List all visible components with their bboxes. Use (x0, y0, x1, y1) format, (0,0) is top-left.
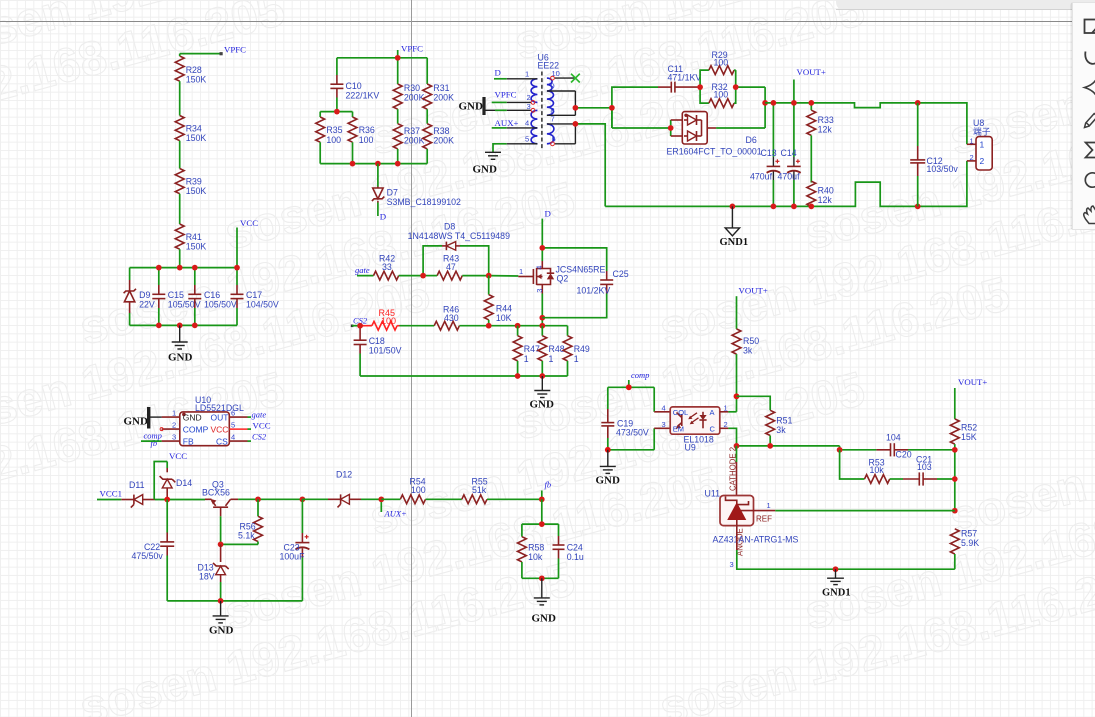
svg-text:GND: GND (459, 101, 484, 113)
svg-text:R36: R36 (359, 125, 375, 135)
net label VCC1 (97, 489, 122, 500)
svg-text:100: 100 (411, 485, 426, 495)
wire opto pin1 node (728, 393, 739, 411)
net label comp (C19) (629, 370, 650, 387)
svg-text:1: 1 (980, 140, 985, 150)
svg-text:100uF: 100uF (280, 552, 306, 562)
capacitor C22 (132, 500, 175, 601)
junction dots right column (952, 447, 958, 514)
right toolbar panel (1071, 2, 1095, 230)
svg-text:15K: 15K (961, 432, 977, 442)
svg-text:6: 6 (231, 408, 235, 417)
zener diode D9 (124, 268, 155, 326)
svg-text:D: D (495, 68, 501, 78)
svg-text:3: 3 (172, 432, 176, 441)
svg-text:0.1u: 0.1u (567, 552, 584, 562)
svg-text:R49: R49 (574, 344, 590, 354)
ground GND (C19) (596, 450, 621, 487)
svg-text:GND: GND (183, 412, 202, 422)
svg-text:105/50V: 105/50V (168, 300, 201, 310)
resistor R46 (434, 305, 489, 331)
svg-text:C17: C17 (246, 290, 262, 300)
wire (179, 81, 181, 115)
svg-text:104/50V: 104/50V (246, 300, 279, 310)
optocoupler U9 EL1018 (654, 404, 728, 453)
resistor R54 (381, 477, 462, 504)
svg-text:104: 104 (886, 433, 901, 443)
net label VCC (D14) (154, 451, 187, 500)
resistor R57 (950, 529, 979, 570)
wire R35/R36 top rail (320, 111, 352, 113)
svg-text:1: 1 (574, 354, 579, 364)
wire D6 feed (612, 120, 674, 136)
resistor R37 (393, 109, 424, 163)
wire VPFC rail top (C10 block) (337, 50, 427, 58)
svg-text:103: 103 (917, 462, 932, 472)
svg-text:VCC: VCC (253, 421, 271, 431)
capacitor C20 (876, 433, 954, 460)
svg-text:R41: R41 (186, 232, 202, 242)
wire opto pin2 to cathode rail (728, 428, 839, 448)
svg-text:U9: U9 (685, 443, 696, 453)
svg-text:200K: 200K (404, 93, 425, 103)
svg-text:R37: R37 (404, 126, 420, 136)
net label VOUT+ (R52) (955, 377, 988, 419)
wire C19 bottom rail (605, 387, 654, 452)
net label D (transformer pin1) (494, 68, 507, 79)
pin 5 (507, 143, 538, 145)
svg-text:475/50v: 475/50v (132, 551, 164, 561)
transistor Q2 JCS4N65RE (518, 261, 605, 294)
svg-text:GND: GND (209, 625, 234, 637)
svg-text:C18: C18 (369, 336, 385, 346)
IC U10 LD5521DGL (160, 395, 247, 446)
svg-text:D9: D9 (139, 290, 150, 300)
net label AUX+ (D12) (378, 496, 406, 518)
svg-text:1: 1 (724, 404, 728, 413)
svg-text:R30: R30 (404, 83, 420, 93)
svg-text:473/50V: 473/50V (616, 428, 649, 438)
pin 7 (547, 123, 576, 125)
svg-text:GND: GND (532, 613, 557, 625)
svg-text:C: C (710, 425, 716, 434)
capacitor C14 (778, 103, 801, 206)
svg-text:GND: GND (530, 399, 555, 411)
svg-text:100: 100 (326, 135, 341, 145)
resistor R45 (highlighted) (372, 308, 400, 330)
svg-text:GND1: GND1 (720, 237, 749, 248)
svg-text:FB: FB (183, 436, 194, 446)
wire R53 branch (840, 450, 865, 479)
svg-text:12k: 12k (818, 195, 833, 205)
ground GND1 (TL431) (822, 569, 851, 598)
svg-text:D: D (380, 212, 386, 222)
svg-text:1: 1 (970, 137, 974, 146)
svg-text:C10: C10 (346, 81, 362, 91)
svg-text:VCC1: VCC1 (100, 489, 123, 499)
svg-text:gate: gate (252, 410, 267, 420)
svg-text:fb: fb (545, 480, 552, 490)
svg-text:150K: 150K (186, 74, 207, 84)
svg-text:200K: 200K (404, 136, 425, 146)
capacitor C23 (280, 499, 310, 601)
no-connect X at pin 10 (571, 74, 580, 83)
svg-text:10k: 10k (528, 552, 543, 562)
svg-text:103/50v: 103/50v (927, 164, 959, 174)
shunt regulator U11 AZ431AN (705, 446, 799, 569)
capacitor C15 (152, 268, 200, 326)
wire bottom rail C10 block (320, 163, 427, 165)
wire cathode jog (837, 446, 877, 453)
pin 8 (547, 114, 576, 116)
net label VOUT+ (output) (794, 67, 826, 103)
pin 3 (507, 109, 531, 111)
toolbar icon curve (1085, 52, 1095, 64)
net label D (Q2 drain) (542, 209, 551, 262)
capacitor C17 (231, 268, 279, 326)
junction dots cap bank (156, 265, 240, 329)
svg-text:R39: R39 (186, 177, 202, 187)
zener diode D13 (198, 544, 229, 601)
svg-text:ER1604FCT_TO_00001: ER1604FCT_TO_00001 (667, 147, 762, 157)
diode D8 1N4148WS (408, 222, 510, 276)
svg-text:Q2: Q2 (557, 274, 569, 284)
junction dots output rails (730, 100, 921, 209)
resistor R33 (807, 103, 834, 183)
wire (179, 249, 181, 267)
net label CS2 (U10 pin4) (248, 432, 267, 442)
toolbar icon star (1085, 78, 1095, 98)
toolbar icon rect/image (1085, 20, 1095, 34)
svg-text:BCX56: BCX56 (202, 488, 230, 498)
svg-text:9: 9 (551, 82, 555, 91)
svg-text:R52: R52 (961, 423, 977, 433)
svg-text:100: 100 (381, 316, 396, 326)
svg-text:10K: 10K (496, 313, 512, 323)
svg-text:10k: 10k (870, 465, 885, 475)
svg-text:3: 3 (527, 102, 531, 111)
toolbar icon sigma (1086, 143, 1095, 158)
wire secondary top (pins 9/8) (573, 91, 612, 115)
resistor R50 (732, 329, 759, 412)
zener diode D12 (302, 470, 381, 508)
wire CS rail (486, 323, 568, 329)
svg-text:VOUT+: VOUT+ (958, 377, 987, 387)
svg-text:VCC: VCC (211, 424, 229, 434)
resistor R40 (807, 181, 834, 206)
svg-text:GND1: GND1 (822, 588, 851, 599)
pin 9 (547, 90, 576, 92)
svg-text:AUX+: AUX+ (495, 118, 519, 128)
ground GND (cap bank) (168, 325, 193, 363)
net label CS2 (R45) (351, 316, 372, 328)
toolbar icon pencil (1085, 114, 1095, 128)
svg-text:GND: GND (124, 416, 149, 428)
svg-text:R57: R57 (961, 529, 977, 539)
svg-text:A: A (710, 408, 715, 417)
svg-text:GND: GND (596, 475, 621, 487)
ground flag GND (U10 pin1) (124, 407, 162, 429)
svg-text:R44: R44 (496, 303, 512, 313)
svg-text:REF: REF (756, 515, 772, 524)
zener diode D11 (121, 480, 155, 508)
resistor R48 (538, 326, 565, 376)
svg-text:105/50V: 105/50V (204, 300, 237, 310)
svg-text:1N4148WS T4_C5119489: 1N4148WS T4_C5119489 (408, 231, 510, 241)
capacitor C18 (354, 323, 402, 376)
svg-text:VOUT+: VOUT+ (797, 67, 826, 77)
svg-text:1: 1 (172, 408, 176, 417)
svg-text:1: 1 (549, 354, 554, 364)
wire + ground GND (transformer pin5) (473, 144, 507, 176)
resistor R29 (699, 50, 736, 87)
svg-text:R50: R50 (743, 336, 759, 346)
svg-text:2: 2 (724, 420, 728, 429)
wire bottom rail cap bank (130, 324, 237, 326)
svg-text:430: 430 (444, 313, 459, 323)
zener diode D14 (160, 468, 193, 500)
svg-text:S3MB_C18199102: S3MB_C18199102 (387, 197, 461, 207)
svg-text:R48: R48 (549, 344, 565, 354)
net label AUX+ (transformer pin4) (492, 118, 519, 128)
junction dots R29/R32 (697, 84, 738, 90)
svg-text:18V: 18V (199, 572, 215, 582)
resistor R43 (423, 254, 489, 281)
svg-text:3k: 3k (743, 346, 753, 356)
svg-text:comp: comp (631, 370, 649, 380)
svg-text:7: 7 (551, 115, 555, 124)
svg-text:VPFC: VPFC (401, 44, 423, 54)
svg-text:101/50V: 101/50V (369, 346, 402, 356)
svg-text:4: 4 (231, 432, 235, 441)
svg-text:2: 2 (970, 153, 974, 162)
zener diode D7 (372, 164, 461, 216)
svg-text:C24: C24 (567, 543, 583, 553)
svg-text:R51: R51 (776, 416, 792, 426)
net label VOUT+ (R50) (737, 286, 768, 329)
ground GND (bottom-left) (209, 601, 234, 637)
svg-text:C16: C16 (204, 290, 220, 300)
ground flag GND (transformer pin3) (459, 97, 507, 115)
svg-text:470uf: 470uf (750, 172, 773, 182)
svg-text:12k: 12k (818, 125, 833, 135)
svg-text:3: 3 (662, 420, 666, 429)
svg-text:5: 5 (231, 420, 235, 429)
svg-text:3k: 3k (776, 425, 786, 435)
pin 10 (555, 77, 576, 79)
svg-text:150K: 150K (186, 133, 207, 143)
transformer U6 EE22 (507, 53, 576, 150)
svg-text:R31: R31 (433, 83, 449, 93)
net label gate (R42) (355, 265, 374, 276)
pin 6 (555, 143, 576, 145)
wire bottom-left gnd rail (167, 598, 302, 604)
svg-text:5.1k: 5.1k (238, 531, 255, 541)
svg-text:CS2: CS2 (252, 432, 267, 442)
svg-text:22V: 22V (139, 300, 155, 310)
resistor R34 (175, 116, 206, 144)
connector U8 (967, 118, 992, 170)
svg-text:4: 4 (525, 119, 529, 128)
svg-text:R28: R28 (186, 65, 202, 75)
svg-text:VOUT+: VOUT+ (739, 286, 768, 296)
pin 1 (507, 78, 538, 80)
svg-text:100: 100 (359, 135, 374, 145)
resistor R53 (865, 458, 904, 484)
resistor R51 (737, 396, 793, 446)
svg-text:4: 4 (662, 404, 666, 413)
svg-text:150K: 150K (186, 242, 207, 252)
axis origin lines (0, 21, 1072, 23)
wire Q2 source (539, 294, 545, 326)
wire gate to Q2 (489, 275, 519, 277)
svg-text:100: 100 (714, 90, 729, 100)
svg-text:R40: R40 (818, 186, 834, 196)
resistor R52 (950, 419, 977, 511)
wire (179, 54, 181, 56)
svg-text:471/1KV: 471/1KV (668, 72, 702, 82)
svg-text:222/1KV: 222/1KV (346, 91, 380, 101)
svg-text:GND: GND (473, 164, 498, 176)
wire CS bottom rail (360, 373, 567, 379)
svg-text:3: 3 (535, 289, 544, 293)
capacitor C13 (750, 103, 780, 206)
svg-text:R34: R34 (186, 124, 202, 134)
svg-text:100: 100 (714, 57, 729, 67)
wire secondary bottom (pins 7/6) (573, 121, 606, 206)
resistor R36 (348, 112, 375, 164)
resistor R58 (518, 524, 545, 578)
capacitor C21 (903, 455, 955, 486)
resistor R38 (423, 109, 454, 163)
net label fb (R55) (539, 480, 551, 503)
svg-text:VPFC: VPFC (495, 90, 517, 100)
resistor R39 (175, 169, 206, 197)
svg-text:47: 47 (446, 262, 456, 272)
svg-text:51k: 51k (472, 485, 487, 495)
wire Q3 base node (218, 516, 258, 547)
svg-text:VCC: VCC (240, 218, 258, 228)
svg-text:470uf: 470uf (778, 172, 801, 182)
wire comp rail (608, 384, 654, 390)
svg-text:AZ431AN-ATRG1-MS: AZ431AN-ATRG1-MS (713, 535, 799, 545)
wire VCC down (236, 228, 238, 268)
transistor Q3 BCX56 (202, 480, 238, 517)
svg-text:COMP: COMP (183, 424, 209, 434)
svg-text:200K: 200K (433, 136, 454, 146)
svg-text:101/2KV: 101/2KV (577, 286, 611, 296)
svg-text:CS: CS (216, 436, 228, 446)
junction dots gate row (420, 273, 491, 279)
capacitor C11 (658, 64, 701, 93)
svg-text:VCC: VCC (169, 451, 187, 461)
svg-text:150K: 150K (186, 186, 207, 196)
capacitor C16 (188, 268, 237, 326)
capacitor C19 (601, 387, 649, 450)
wire Q3 collector (238, 496, 305, 502)
svg-text:1: 1 (767, 501, 771, 510)
wire fb bottom rail (522, 575, 559, 581)
wire (179, 194, 181, 224)
svg-text:3: 3 (730, 560, 734, 569)
resistor R41 (175, 224, 206, 252)
capacitor C12 (910, 103, 958, 206)
resistor R35 (316, 112, 343, 164)
capacitor C25 (539, 245, 628, 318)
pin 2 (507, 101, 531, 103)
toolbar icon hand (1084, 206, 1095, 224)
capacitor C24 (553, 524, 584, 578)
pin 4 (507, 127, 538, 129)
resistor R56 (238, 499, 262, 544)
svg-text:33: 33 (382, 262, 392, 272)
net label VPFC (transformer pin2) (492, 90, 517, 103)
svg-text:D6: D6 (746, 135, 757, 145)
top-right menu bar remnant (836, 0, 1095, 10)
wire (179, 141, 181, 169)
svg-text:GND: GND (168, 352, 193, 364)
svg-text:COL: COL (673, 408, 688, 417)
wire anode bottom rail (737, 526, 955, 572)
capacitor C10 (330, 58, 379, 112)
net label VCC (U10 pin5) (248, 421, 271, 431)
wire fb down (522, 499, 559, 527)
svg-text:2: 2 (980, 156, 985, 166)
ground GND (fb filter) (532, 578, 557, 624)
resistor R42 (374, 254, 424, 281)
wire output bottom rail (605, 161, 967, 207)
resistor R49 (563, 326, 590, 376)
resistor R32 (700, 70, 765, 107)
svg-text:D: D (545, 209, 551, 219)
svg-text:2: 2 (172, 420, 176, 429)
wire output top rail (765, 103, 967, 144)
wire snubber node (609, 87, 658, 128)
svg-text:C14: C14 (781, 148, 797, 158)
junction dots C10 block (334, 55, 401, 167)
toolbar icon circle (1085, 173, 1095, 189)
resistor R47 (513, 326, 540, 376)
dual diode D6 ER1604FCT (667, 112, 762, 157)
ground GND (CS) (530, 376, 555, 411)
svg-text:EM: EM (673, 425, 684, 434)
resistor R31 (423, 58, 454, 109)
wire D6 output (716, 87, 768, 128)
svg-text:gate: gate (355, 265, 370, 275)
resistor R30 (393, 58, 424, 109)
svg-text:R38: R38 (433, 126, 449, 136)
ground GND1 (output) (720, 206, 749, 248)
svg-text:5: 5 (525, 135, 529, 144)
net label gate (U10 pin6) (248, 410, 267, 420)
svg-text:D14: D14 (176, 478, 192, 488)
svg-text:端子: 端子 (973, 126, 991, 137)
svg-text:R35: R35 (326, 125, 342, 135)
svg-text:CATHODE 2: CATHODE 2 (729, 447, 738, 491)
resistor R28 (175, 56, 206, 84)
svg-text:2: 2 (527, 93, 531, 102)
svg-text:5.9K: 5.9K (961, 538, 979, 548)
svg-text:C20: C20 (896, 450, 912, 460)
svg-text:OUT: OUT (211, 412, 229, 422)
svg-text:C13: C13 (761, 148, 777, 158)
wire R45 to R46 (400, 325, 435, 327)
svg-text:1: 1 (519, 267, 523, 276)
wire top rail cap bank (130, 267, 237, 269)
resistor R44 (484, 276, 512, 326)
wire REF row (775, 510, 955, 512)
svg-text:1: 1 (525, 70, 529, 79)
